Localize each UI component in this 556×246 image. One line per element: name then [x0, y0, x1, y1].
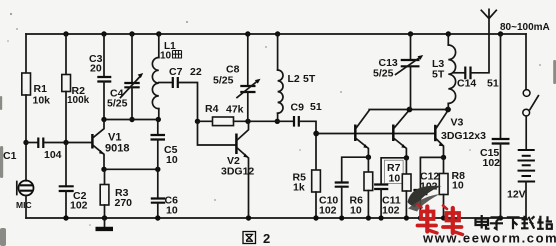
battery GB 12V: [518, 150, 536, 182]
svg-text:80~100mA: 80~100mA: [500, 22, 550, 33]
svg-text:10: 10: [452, 180, 464, 192]
svg-text:10: 10: [389, 173, 401, 185]
svg-text:22: 22: [190, 66, 202, 78]
node R4 left junction: [195, 119, 200, 124]
capacitor C3: [97, 77, 111, 82]
svg-text:10k: 10k: [33, 95, 51, 107]
wire base line right segment: [44, 142, 91, 144]
node C12 ground junction: [418, 215, 423, 220]
wire V3 base bus: [316, 133, 435, 135]
svg-text:C1: C1: [3, 150, 17, 162]
svg-text:C7: C7: [169, 66, 183, 78]
wire C12 lower lead: [419, 194, 421, 218]
node C8 top rail: [245, 31, 250, 36]
node V3 emitter2 junction: [404, 155, 409, 160]
wire R3 lower lead: [104, 205, 106, 218]
wire C15 upper lead: [500, 34, 502, 139]
wire C10 branch: [342, 157, 369, 182]
svg-text:10: 10: [350, 205, 362, 217]
wire switch upper lead: [525, 34, 527, 90]
transistor V2: [221, 121, 254, 218]
wire R4 left lead: [198, 120, 213, 122]
wire L1 tap to C7: [159, 82, 172, 84]
transistor V3 unit 3: [435, 110, 486, 157]
svg-text:3DG12: 3DG12: [221, 166, 254, 178]
wire C5 lower lead: [157, 140, 159, 170]
inductor L3: [447, 34, 449, 45]
capacitor C5: [151, 135, 166, 140]
wire C4 upper lead: [131, 34, 133, 83]
wire R2 column lower: [65, 92, 67, 143]
svg-text:www.eeworm.com: www.eeworm.com: [422, 231, 556, 246]
wire C2 upper lead: [65, 143, 67, 187]
wire bottom ground rail: [26, 217, 526, 219]
wire V3 collector bus: [369, 109, 448, 111]
node C15 top rail: [498, 31, 503, 36]
node R2 top rail: [63, 31, 68, 36]
wire L2 node to C9: [248, 120, 293, 122]
svg-text:102: 102: [70, 200, 88, 212]
capacitor C1: [38, 138, 43, 149]
wire left column lower: [25, 196, 27, 219]
resistor R2: [62, 75, 71, 92]
wire C13 lower lead: [410, 66, 412, 109]
node C4 top rail: [129, 31, 134, 36]
watermark logo swoosh: [408, 186, 442, 212]
resistor R4: [213, 117, 234, 126]
transistor V3 unit 2: [393, 110, 409, 158]
wire tank line: [104, 119, 158, 121]
watermark bug 2: [443, 206, 463, 235]
svg-text:5/25: 5/25: [373, 68, 394, 80]
svg-text:5/25: 5/25: [107, 98, 128, 110]
node V3 emitter1 junction: [366, 155, 371, 160]
node C4 tank junction: [129, 117, 134, 122]
node L2 bottom junction: [275, 119, 280, 124]
wire R5 lower lead: [315, 192, 317, 218]
node C5 bottom junction: [155, 167, 160, 172]
node C11 ground junction: [379, 215, 384, 220]
node L3 bus junction: [445, 107, 451, 113]
wire C14 to antenna: [472, 34, 490, 73]
resistor R7: [402, 174, 411, 191]
svg-text:1k: 1k: [293, 182, 305, 194]
svg-text:104: 104: [44, 149, 62, 161]
wire V1 emitter line: [104, 168, 158, 170]
wire C11 branch: [381, 158, 406, 185]
capacitor C6: [151, 199, 165, 203]
svg-text:5T: 5T: [303, 73, 316, 85]
wire C13 upper lead: [410, 34, 412, 60]
wire top power rail: [26, 33, 526, 35]
wire C3 lower lead: [103, 82, 105, 120]
svg-text:100k: 100k: [67, 95, 90, 106]
wire C7 to R4 node: [179, 83, 198, 122]
capacitor C15: [492, 139, 510, 144]
capacitor C10: [335, 183, 349, 187]
node R6 ground junction: [366, 215, 371, 220]
wire R8 lower lead: [443, 195, 445, 219]
wire battery lower lead: [525, 182, 527, 219]
node C2 ground junction: [63, 215, 68, 220]
wire C6 upper lead: [157, 169, 159, 198]
wire V2 base: [198, 121, 236, 145]
wire R3 upper lead: [104, 169, 106, 184]
wire C6 lower lead: [157, 203, 159, 218]
wire C12 branch: [420, 157, 443, 190]
watermark bug 1: [418, 204, 438, 233]
node V2 collector junction: [245, 119, 250, 124]
microphone MIC: [16, 181, 34, 211]
node C13 top rail: [408, 31, 413, 36]
resistor R1: [22, 73, 31, 95]
wire C3 upper lead: [103, 34, 105, 77]
resistor R6: [364, 172, 373, 191]
svg-text:R1: R1: [34, 83, 48, 95]
wire C2 lower lead: [65, 191, 67, 218]
svg-text:10: 10: [166, 154, 178, 166]
svg-text:270: 270: [115, 197, 133, 209]
inductor L2: [277, 34, 279, 70]
node R3 ground junction: [102, 215, 107, 220]
node V1 emitter junction: [101, 167, 106, 172]
wire left column upper: [25, 34, 27, 73]
wire R6 upper lead: [367, 157, 369, 172]
wire R8 upper lead: [443, 157, 445, 173]
capacitor C9: [294, 116, 299, 127]
svg-text:51: 51: [310, 101, 322, 113]
node C6 ground junction: [155, 215, 160, 220]
node L1 top rail: [156, 31, 161, 36]
svg-text:9018: 9018: [105, 143, 129, 155]
transistor V3 unit 1: [355, 110, 369, 157]
wire C8 lower lead: [247, 92, 249, 121]
svg-text:2: 2: [263, 231, 270, 246]
resistor R8: [439, 174, 448, 195]
wire L3 tap to C14: [453, 72, 464, 74]
node C15 ground junction: [498, 215, 503, 220]
capacitor C8 variable: [240, 86, 255, 92]
node L1 bottom tank junction: [156, 117, 161, 122]
wire left column mid: [25, 95, 27, 181]
node R7 ground junction: [404, 215, 409, 220]
svg-text:51: 51: [487, 78, 499, 90]
svg-text:20: 20: [90, 63, 102, 75]
capacitor C7: [173, 77, 178, 88]
node L2 top rail: [275, 31, 280, 36]
capacitor C4 variable: [124, 83, 139, 87]
node V2 emitter ground junction: [246, 215, 251, 220]
svg-text:C14: C14: [457, 78, 476, 90]
svg-text:MIC: MIC: [16, 200, 32, 210]
capacitor C12: [413, 190, 427, 194]
resistor R3: [100, 185, 109, 206]
wire R2 column upper: [65, 34, 67, 75]
wire R6 lower lead: [367, 191, 369, 219]
node L3 top rail: [446, 31, 451, 36]
node C13 bus junction: [407, 107, 413, 113]
wire C10 lower lead: [341, 187, 343, 218]
resistor R5: [312, 170, 321, 192]
svg-text:3DG12x3: 3DG12x3: [441, 130, 486, 142]
wire C8 upper lead: [247, 34, 249, 86]
wire C11 lower lead: [380, 189, 382, 218]
svg-text:R4: R4: [205, 103, 219, 115]
wire C9 to R5 corner: [300, 121, 316, 170]
node C10 ground junction: [339, 215, 344, 220]
node R8 ground junction: [441, 215, 446, 220]
ground symbol: [104, 218, 106, 228]
svg-text:10: 10: [160, 51, 172, 62]
wire R4 right lead: [234, 120, 249, 122]
switch S: [523, 90, 539, 116]
wire R7 lower lead: [405, 191, 407, 218]
svg-text:12V: 12V: [507, 189, 526, 201]
capacitor C2: [59, 186, 74, 191]
svg-text:102: 102: [382, 205, 400, 217]
wire base line left segment: [26, 142, 37, 144]
capacitor C11: [374, 185, 388, 190]
svg-text:L2: L2: [288, 73, 300, 85]
node V1 collector tank junction: [101, 117, 106, 122]
node base bus left junction: [313, 131, 319, 137]
svg-text:C9: C9: [291, 102, 305, 114]
wire C15 lower lead: [500, 144, 502, 219]
wire C4 lower lead: [131, 87, 133, 119]
wire switch to battery: [525, 116, 527, 150]
svg-text:5T: 5T: [432, 69, 445, 81]
svg-text:102: 102: [483, 157, 501, 169]
node C3 top rail: [101, 31, 106, 36]
node R1-C1-MIC junction: [23, 140, 28, 145]
wire C5 upper lead: [157, 120, 159, 136]
svg-text:10: 10: [166, 205, 178, 217]
node R2-C2-base junction: [63, 140, 68, 145]
watermark text dianzi xiazaizhan: [476, 215, 553, 229]
svg-text:47k: 47k: [226, 104, 244, 116]
node R5 ground junction: [313, 215, 318, 220]
svg-text:5/25: 5/25: [213, 75, 234, 87]
wire R7 upper lead: [405, 158, 407, 174]
node V3 emitter3 junction: [441, 155, 446, 160]
inductor L1: [158, 34, 160, 58]
capacitor C14: [465, 67, 470, 80]
transistor V1: [92, 120, 129, 170]
svg-text:102: 102: [319, 205, 337, 217]
capacitor C13 variable: [401, 60, 420, 66]
caption figure 2: [243, 232, 256, 244]
label patch for R7: [385, 160, 404, 183]
antenna: [481, 9, 496, 34]
svg-text:V3: V3: [451, 117, 464, 129]
